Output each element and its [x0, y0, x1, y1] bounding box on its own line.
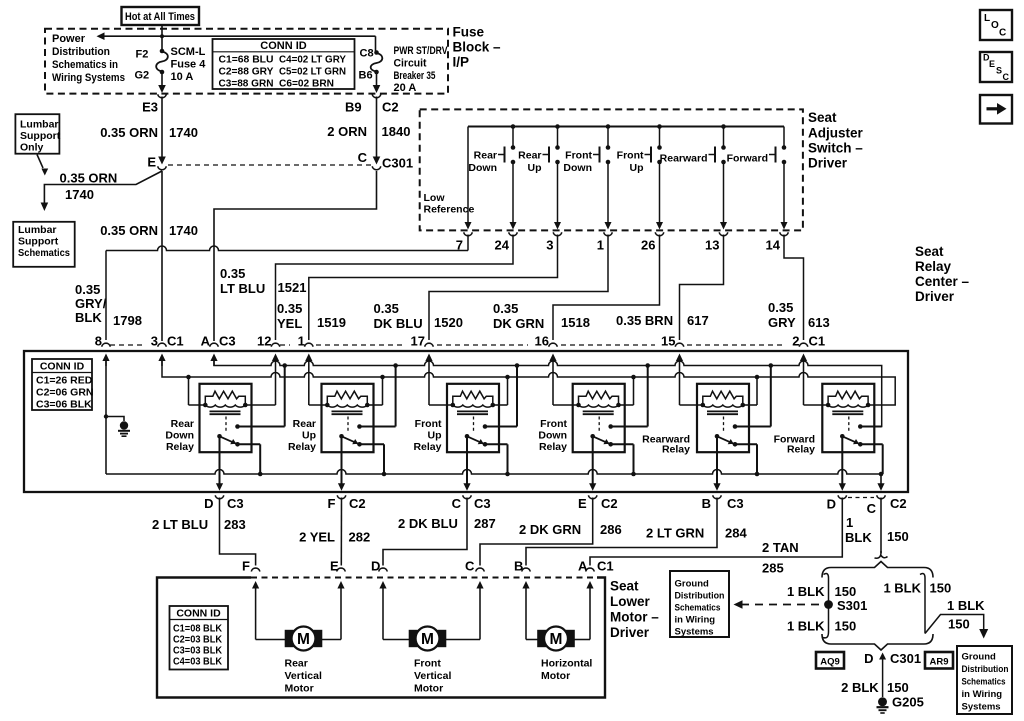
- fuse F4 SCM-L: [160, 49, 165, 54]
- svg-text:Support: Support: [18, 236, 59, 248]
- svg-text:286: 286: [600, 522, 622, 537]
- svg-text:Motor: Motor: [541, 670, 570, 682]
- svg-text:Seat: Seat: [808, 110, 837, 125]
- svg-text:PWR ST/DRV: PWR ST/DRV: [394, 45, 449, 57]
- svg-text:D: D: [371, 559, 380, 574]
- svg-text:Schematics: Schematics: [18, 247, 70, 259]
- feed wire from hot-at-all-times with left arrow: [161, 25, 163, 49]
- svg-text:M: M: [297, 631, 310, 648]
- svg-text:Circuit: Circuit: [394, 58, 427, 70]
- forward arrow box: [980, 95, 1012, 124]
- svg-text:E: E: [147, 155, 156, 170]
- svg-text:Reference: Reference: [424, 204, 475, 216]
- ground distribution schematics box (left): [670, 571, 729, 637]
- svg-text:C3: C3: [474, 496, 491, 511]
- seat relay center box: [24, 351, 908, 492]
- svg-text:1 BLK: 1 BLK: [947, 598, 985, 613]
- svg-text:2 DK BLU: 2 DK BLU: [398, 516, 458, 531]
- seat lower motor box: [157, 578, 605, 698]
- relay center bottom pin F C2: [337, 495, 346, 498]
- svg-text:3: 3: [151, 334, 158, 349]
- wire 2 ORN 1840 (B9 down): [376, 97, 378, 161]
- svg-text:C: C: [358, 150, 368, 165]
- svg-text:C2: C2: [349, 496, 366, 511]
- svg-text:Driver: Driver: [915, 289, 955, 304]
- svg-text:Relay: Relay: [288, 441, 316, 453]
- svg-text:Driver: Driver: [610, 625, 650, 640]
- svg-text:Down: Down: [165, 430, 194, 442]
- svg-text:26: 26: [641, 238, 655, 253]
- svg-text:Power: Power: [52, 33, 86, 45]
- svg-text:0.35: 0.35: [277, 301, 302, 316]
- svg-text:Seat: Seat: [915, 244, 944, 259]
- relay K3 Front Up Relay: [447, 384, 499, 452]
- svg-text:Front: Front: [415, 418, 442, 430]
- svg-text:DK BLU: DK BLU: [374, 316, 423, 331]
- DESC reference box: [980, 52, 1012, 82]
- svg-text:617: 617: [687, 313, 709, 328]
- svg-text:Distribution: Distribution: [962, 664, 1009, 675]
- relay center pin 16: [549, 343, 558, 346]
- svg-text:C1=26 RED: C1=26 RED: [36, 375, 93, 387]
- svg-text:D: D: [827, 497, 836, 512]
- svg-text:613: 613: [808, 315, 830, 330]
- relay center pin 2: [799, 343, 808, 346]
- svg-text:C: C: [1003, 72, 1010, 82]
- svg-text:Rearward: Rearward: [660, 153, 708, 165]
- svg-text:C3: C3: [227, 496, 244, 511]
- wire segment GRY/BLK down to pin 8: [106, 246, 468, 251]
- svg-text:C2: C2: [601, 496, 618, 511]
- svg-text:E: E: [578, 496, 587, 511]
- svg-text:Lumbar: Lumbar: [18, 224, 57, 236]
- chassis ground symbol: [104, 414, 108, 418]
- wire 2 TAN 285 (D to motor A): [590, 498, 842, 566]
- svg-text:1 BLK: 1 BLK: [787, 619, 825, 634]
- svg-text:C2=88 GRY: C2=88 GRY: [219, 66, 274, 78]
- svg-text:Motor: Motor: [285, 682, 314, 694]
- svg-text:Relay: Relay: [662, 444, 690, 456]
- conn id table (fuse block): [213, 39, 355, 89]
- lower splice brace: [822, 634, 933, 650]
- svg-text:150: 150: [887, 680, 909, 695]
- hot at all times box: [122, 7, 200, 25]
- svg-text:Fuse: Fuse: [453, 25, 485, 40]
- svg-text:CONN ID: CONN ID: [40, 361, 85, 373]
- relay center bottom pin C C2 (ground): [880, 474, 882, 484]
- svg-text:Schematics in: Schematics in: [52, 59, 118, 71]
- svg-text:C: C: [452, 496, 462, 511]
- svg-text:1: 1: [846, 515, 853, 530]
- svg-text:1518: 1518: [561, 315, 590, 330]
- relay center pin 15: [675, 343, 684, 346]
- svg-text:L: L: [984, 13, 990, 24]
- svg-text:A: A: [578, 559, 588, 574]
- relay K5 Rearward Relay: [697, 384, 749, 452]
- svg-text:F: F: [242, 559, 250, 574]
- svg-text:C3=06 BLK: C3=06 BLK: [36, 399, 92, 411]
- connector cups at fuse block bottom (E3, B9): [158, 94, 167, 97]
- svg-text:Support: Support: [20, 130, 61, 142]
- svg-text:Front: Front: [565, 150, 592, 162]
- svg-text:Down: Down: [468, 162, 497, 174]
- svg-text:I/P: I/P: [453, 55, 470, 70]
- motor connector pin C: [476, 568, 485, 571]
- svg-text:B6: B6: [359, 70, 373, 82]
- wire 2 DK GRN 286 (E to motor C): [480, 498, 593, 566]
- svg-text:8: 8: [95, 334, 102, 349]
- bus 0.35 ORN (from pin 3) y=377: [162, 360, 895, 405]
- svg-text:0.35 BRN: 0.35 BRN: [616, 313, 673, 328]
- seat adjuster switch dashed box: [420, 109, 803, 230]
- svg-text:C5=02 LT GRN: C5=02 LT GRN: [279, 66, 346, 78]
- wire 2 LT GRN 284 (B to motor B): [526, 498, 717, 566]
- svg-text:Rear: Rear: [518, 150, 541, 162]
- grid ref box AQ9: [816, 652, 844, 669]
- relay center pin 3: [158, 343, 167, 346]
- wire 0.35 BRN 617 (pin13 to relay pin15): [680, 235, 724, 341]
- svg-text:Center –: Center –: [915, 274, 970, 289]
- svg-text:2 YEL: 2 YEL: [299, 530, 335, 545]
- svg-text:2 LT BLU: 2 LT BLU: [152, 517, 208, 532]
- svg-text:C6=02 BRN: C6=02 BRN: [279, 78, 334, 90]
- Front Up switch: [657, 124, 662, 129]
- svg-text:283: 283: [224, 517, 246, 532]
- svg-text:Adjuster: Adjuster: [808, 126, 864, 141]
- svg-text:287: 287: [474, 516, 496, 531]
- svg-text:0.35: 0.35: [374, 301, 399, 316]
- svg-text:Rear: Rear: [293, 418, 316, 430]
- svg-text:Motor –: Motor –: [610, 610, 659, 625]
- svg-text:Block –: Block –: [453, 40, 502, 55]
- svg-text:C3: C3: [219, 334, 236, 349]
- svg-text:C1: C1: [597, 559, 614, 574]
- svg-text:1: 1: [298, 334, 305, 349]
- svg-text:C: C: [465, 559, 475, 574]
- svg-text:Forward: Forward: [727, 153, 768, 165]
- svg-text:Schematics: Schematics: [675, 603, 721, 614]
- svg-text:Low: Low: [424, 192, 446, 204]
- svg-text:12: 12: [257, 334, 271, 349]
- svg-text:Systems: Systems: [962, 702, 1001, 713]
- switch supply bus: [468, 126, 784, 128]
- svg-text:Motor: Motor: [414, 682, 443, 694]
- svg-text:C4=02 LT GRY: C4=02 LT GRY: [279, 54, 346, 66]
- lumbar branch wire 0.35 ORN 1740: [44, 171, 162, 203]
- relay center bottom pin D C3: [215, 495, 224, 498]
- svg-text:C301: C301: [890, 651, 921, 666]
- motor connector pin D: [379, 568, 388, 571]
- svg-text:C1: C1: [809, 334, 826, 349]
- upper splice brace: [822, 562, 933, 578]
- motor M2 Front Vertical Motor: [382, 597, 384, 640]
- svg-text:1520: 1520: [434, 315, 463, 330]
- ground bus y=474 (from pin 8): [105, 360, 107, 474]
- svg-text:1740: 1740: [169, 125, 198, 140]
- conn id table (relay center): [32, 359, 92, 410]
- svg-text:CONN ID: CONN ID: [176, 608, 221, 620]
- svg-text:Fuse 4: Fuse 4: [171, 59, 207, 71]
- svg-text:2 LT GRN: 2 LT GRN: [646, 526, 704, 541]
- relay center pin A: [210, 343, 219, 346]
- svg-text:CONN ID: CONN ID: [260, 40, 307, 52]
- svg-text:2 TAN: 2 TAN: [762, 540, 799, 555]
- svg-text:M: M: [421, 631, 434, 648]
- svg-text:E3: E3: [142, 100, 158, 115]
- grid ref box AR9: [925, 652, 953, 669]
- svg-text:Switch –: Switch –: [808, 141, 863, 156]
- relay center bottom pin C C3: [463, 495, 472, 498]
- svg-text:F2: F2: [136, 49, 149, 61]
- svg-text:D: D: [864, 651, 873, 666]
- switch connector pins 7 24 3 1 26 13 14: [464, 232, 473, 235]
- svg-text:C2=06 GRN: C2=06 GRN: [36, 387, 93, 399]
- svg-text:0.35: 0.35: [493, 301, 518, 316]
- svg-text:15: 15: [661, 334, 675, 349]
- wire 0.35 GRY 613 (pin14 to relay pin2): [784, 235, 804, 341]
- wire 0.35 GRY/BLK 1798 (pin7 to relay pin8): [467, 235, 469, 251]
- svg-text:1: 1: [597, 238, 604, 253]
- Rearward switch: [721, 124, 726, 129]
- svg-text:150: 150: [930, 581, 952, 596]
- svg-text:1798: 1798: [113, 313, 142, 328]
- svg-text:1740: 1740: [169, 223, 198, 238]
- svg-text:150: 150: [948, 617, 970, 632]
- svg-text:DK GRN: DK GRN: [493, 316, 544, 331]
- svg-text:Hot at All Times: Hot at All Times: [125, 11, 195, 23]
- svg-text:Relay: Relay: [166, 441, 194, 453]
- svg-text:Rear: Rear: [474, 150, 497, 162]
- svg-text:0.35 ORN: 0.35 ORN: [100, 125, 158, 140]
- svg-text:Down: Down: [563, 162, 592, 174]
- svg-text:Wiring Systems: Wiring Systems: [52, 72, 125, 84]
- svg-text:C1: C1: [167, 334, 184, 349]
- svg-text:0.35: 0.35: [75, 282, 100, 297]
- relay center top connector dashes: [110, 344, 144, 346]
- svg-text:G205: G205: [892, 695, 924, 710]
- svg-text:S301: S301: [837, 598, 867, 613]
- relay K4 Front Down Relay: [573, 384, 625, 452]
- svg-text:GRY: GRY: [768, 315, 796, 330]
- svg-text:10 A: 10 A: [171, 71, 194, 83]
- ground distribution schematics box (right): [957, 646, 1012, 714]
- svg-text:B9: B9: [345, 100, 362, 115]
- wire 0.35 DK BLU 1520 (pin1 to relay pin17): [429, 235, 608, 341]
- circuit breaker 35: [374, 50, 379, 55]
- svg-text:0.35: 0.35: [768, 300, 793, 315]
- svg-text:S: S: [996, 66, 1002, 76]
- svg-text:Lower: Lower: [610, 594, 651, 609]
- svg-text:BLK: BLK: [75, 310, 102, 325]
- svg-text:284: 284: [725, 526, 747, 541]
- relay center bottom pin E C2: [588, 495, 597, 498]
- svg-text:Distribution: Distribution: [52, 46, 110, 58]
- svg-text:24: 24: [495, 238, 510, 253]
- svg-text:14: 14: [766, 238, 781, 253]
- svg-text:285: 285: [762, 561, 784, 576]
- svg-text:Breaker 35: Breaker 35: [394, 70, 436, 82]
- svg-text:2 BLK: 2 BLK: [841, 680, 879, 695]
- lumbar support only box: [15, 114, 59, 154]
- svg-text:150: 150: [835, 584, 857, 599]
- svg-text:Distribution: Distribution: [675, 591, 725, 602]
- motor connector pin A: [586, 568, 595, 571]
- right branch wire 1 BLK 150: [920, 574, 925, 634]
- svg-text:Front: Front: [414, 658, 441, 670]
- wire 0.35 ORN 1740 (E3 down): [161, 97, 163, 161]
- svg-text:1521: 1521: [278, 280, 307, 295]
- motor connector pin F: [251, 568, 260, 571]
- svg-text:YEL: YEL: [277, 316, 302, 331]
- wire 0.35 DK GRN 1518 (pin26 to relay pin16): [553, 235, 660, 341]
- svg-text:F: F: [328, 496, 336, 511]
- wire 0.35 ORN 1740 (to relay center pin 3): [161, 171, 163, 341]
- wire 0.35 LT BLU 1521 (pin24 to relay pin12): [276, 235, 514, 341]
- svg-text:GRY/: GRY/: [75, 296, 107, 311]
- svg-text:SCM-L: SCM-L: [171, 46, 206, 58]
- svg-text:0.35: 0.35: [220, 266, 245, 281]
- svg-text:AR9: AR9: [929, 657, 948, 668]
- svg-text:Up: Up: [630, 162, 644, 174]
- svg-text:C3=88 GRN: C3=88 GRN: [219, 78, 274, 90]
- svg-text:Up: Up: [428, 430, 442, 442]
- annotation arrow to lumbar wire: [37, 155, 43, 169]
- branch to ground distribution 1 BLK 150: [925, 615, 984, 634]
- LOC reference box: [980, 10, 1012, 40]
- motor connector pin E: [337, 568, 346, 571]
- svg-text:BLK: BLK: [845, 530, 872, 545]
- svg-text:Rear: Rear: [285, 658, 308, 670]
- svg-text:D: D: [204, 496, 213, 511]
- svg-text:E: E: [330, 559, 339, 574]
- svg-text:0.35 ORN: 0.35 ORN: [100, 223, 158, 238]
- svg-text:150: 150: [887, 529, 909, 544]
- svg-text:Vertical: Vertical: [414, 670, 451, 682]
- low reference wire drop (pin 7): [467, 127, 469, 223]
- svg-text:Relay: Relay: [787, 444, 815, 456]
- fuse block I/P dashed box: [45, 29, 448, 94]
- svg-text:Front: Front: [617, 150, 644, 162]
- bus 2 ORN (from pin A) y=365.5: [214, 360, 882, 427]
- svg-text:1 BLK: 1 BLK: [883, 581, 921, 596]
- conn id table (seat lower motor): [170, 606, 229, 670]
- svg-text:C4=03 BLK: C4=03 BLK: [173, 656, 222, 668]
- svg-text:C: C: [999, 28, 1006, 39]
- svg-text:Ground: Ground: [675, 579, 709, 590]
- relay center bottom pin D (forward relay): [838, 495, 847, 498]
- svg-text:Up: Up: [528, 162, 542, 174]
- wire 2 DK BLU 287 (C to motor D): [383, 498, 467, 566]
- svg-text:Schematics: Schematics: [962, 677, 1006, 688]
- svg-text:Vertical: Vertical: [285, 670, 322, 682]
- wire 1 BLK 150 (C down to splice braces): [880, 498, 882, 554]
- svg-text:Relay: Relay: [539, 441, 567, 453]
- svg-text:G2: G2: [135, 70, 150, 82]
- svg-text:in Wiring: in Wiring: [962, 689, 1003, 700]
- relay center pin 8: [102, 343, 111, 346]
- wire 2 ORN 1840 (to relay center pin A): [214, 171, 377, 341]
- relay center bottom pin B C3: [713, 495, 722, 498]
- svg-text:Only: Only: [20, 142, 43, 154]
- svg-text:C: C: [867, 501, 877, 516]
- svg-text:Up: Up: [302, 430, 316, 442]
- svg-text:16: 16: [535, 334, 549, 349]
- connector C301 row (E / C): [158, 157, 166, 165]
- svg-text:0.35 ORN: 0.35 ORN: [60, 171, 118, 186]
- svg-text:2 DK GRN: 2 DK GRN: [519, 522, 581, 537]
- Rear Down switch: [511, 124, 516, 129]
- svg-text:1740: 1740: [65, 187, 94, 202]
- Forward switch: [783, 127, 785, 146]
- svg-text:E: E: [989, 59, 995, 69]
- svg-text:in Wiring: in Wiring: [675, 615, 716, 626]
- svg-text:M: M: [550, 631, 563, 648]
- svg-text:C8: C8: [360, 48, 374, 60]
- motor connector pin B: [522, 568, 531, 571]
- relay center pin 1: [305, 343, 314, 346]
- svg-text:282: 282: [349, 530, 371, 545]
- svg-text:13: 13: [705, 238, 719, 253]
- wire 2 YEL 282 (F to motor E): [340, 498, 342, 566]
- svg-text:17: 17: [411, 334, 425, 349]
- svg-text:B: B: [514, 559, 523, 574]
- svg-text:150: 150: [835, 619, 857, 634]
- wire 2 LT BLU 283 (D to motor F): [220, 498, 256, 566]
- svg-text:C2: C2: [890, 496, 907, 511]
- svg-text:1840: 1840: [382, 124, 411, 139]
- svg-text:Down: Down: [538, 430, 567, 442]
- svg-text:Driver: Driver: [808, 156, 848, 171]
- svg-text:Relay: Relay: [413, 441, 441, 453]
- svg-text:O: O: [991, 20, 999, 31]
- relay K1 Rear Down Relay: [200, 384, 252, 452]
- relay center pin 17: [425, 343, 434, 346]
- svg-text:2 ORN: 2 ORN: [327, 124, 367, 139]
- svg-text:Lumbar: Lumbar: [20, 119, 59, 131]
- lumbar support schematics box: [13, 222, 74, 267]
- svg-text:B: B: [702, 496, 711, 511]
- ground G205: [878, 697, 887, 706]
- wire 0.35 YEL 1519 (pin3 to relay pin1): [309, 235, 558, 341]
- svg-text:LT BLU: LT BLU: [220, 281, 265, 296]
- motor M1 Rear Vertical Motor: [255, 597, 257, 640]
- relay K6 Forward Relay: [822, 384, 874, 452]
- dashed wire to S301: [741, 604, 824, 606]
- Front Down switch: [606, 124, 611, 129]
- svg-text:Seat: Seat: [610, 579, 639, 594]
- svg-text:Rear: Rear: [171, 418, 194, 430]
- svg-text:1 BLK: 1 BLK: [787, 584, 825, 599]
- svg-text:Relay: Relay: [915, 259, 952, 274]
- svg-text:2: 2: [792, 334, 799, 349]
- relay center pin 12: [271, 343, 280, 346]
- svg-text:Front: Front: [540, 418, 567, 430]
- svg-text:A: A: [201, 334, 211, 349]
- splice S301 and branch wire 1 BLK 150: [823, 574, 829, 638]
- svg-text:C1=68 BLU: C1=68 BLU: [219, 54, 274, 66]
- svg-text:C301: C301: [382, 156, 413, 171]
- svg-text:C3: C3: [727, 496, 744, 511]
- Rear Up switch: [555, 124, 560, 129]
- svg-text:Ground: Ground: [962, 652, 996, 663]
- svg-text:3: 3: [546, 238, 553, 253]
- svg-text:1519: 1519: [317, 315, 346, 330]
- svg-text:Horizontal: Horizontal: [541, 658, 592, 670]
- svg-text:C2: C2: [382, 100, 399, 115]
- motor M3 Horizontal Motor: [525, 597, 527, 640]
- svg-text:20 A: 20 A: [394, 82, 417, 94]
- svg-text:Systems: Systems: [675, 627, 714, 638]
